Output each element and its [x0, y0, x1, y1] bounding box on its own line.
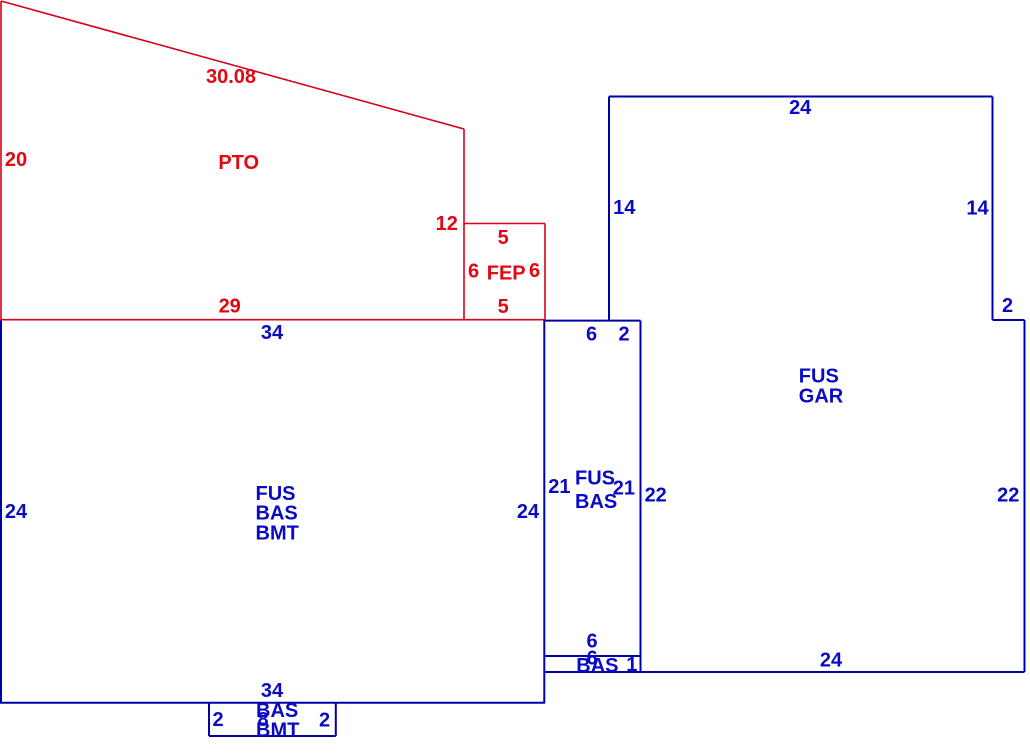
- svg-text:29: 29: [219, 296, 241, 318]
- svg-text:BAS: BAS: [575, 491, 617, 513]
- svg-text:BAS: BAS: [576, 655, 618, 677]
- svg-text:5: 5: [498, 227, 509, 249]
- svg-text:22: 22: [997, 485, 1019, 507]
- svg-text:2: 2: [319, 709, 330, 731]
- svg-text:BAS: BAS: [256, 503, 298, 525]
- svg-text:20: 20: [5, 149, 27, 171]
- svg-text:5: 5: [498, 296, 509, 318]
- svg-text:14: 14: [613, 197, 636, 219]
- svg-text:2: 2: [618, 324, 629, 346]
- svg-text:34: 34: [261, 680, 284, 702]
- svg-text:2: 2: [1002, 295, 1013, 317]
- svg-text:FUS: FUS: [575, 468, 615, 490]
- svg-text:14: 14: [966, 198, 989, 220]
- svg-text:BMT: BMT: [256, 720, 299, 742]
- svg-text:FUS: FUS: [799, 365, 839, 387]
- svg-text:6: 6: [468, 260, 479, 282]
- svg-text:6: 6: [529, 260, 540, 282]
- svg-text:FUS: FUS: [256, 483, 296, 505]
- svg-text:2: 2: [212, 709, 223, 731]
- svg-text:24: 24: [789, 97, 812, 119]
- svg-text:22: 22: [645, 485, 667, 507]
- svg-text:GAR: GAR: [799, 386, 844, 408]
- svg-text:34: 34: [261, 322, 284, 344]
- svg-text:30.08: 30.08: [206, 66, 256, 88]
- svg-text:21: 21: [548, 476, 570, 498]
- svg-text:PTO: PTO: [218, 152, 259, 174]
- svg-text:6: 6: [586, 323, 597, 345]
- svg-text:24: 24: [820, 650, 843, 672]
- svg-text:FEP: FEP: [487, 263, 526, 285]
- svg-text:BMT: BMT: [256, 523, 299, 545]
- svg-text:1: 1: [626, 654, 637, 676]
- svg-text:24: 24: [5, 501, 28, 523]
- svg-text:12: 12: [436, 213, 458, 235]
- svg-text:24: 24: [517, 501, 540, 523]
